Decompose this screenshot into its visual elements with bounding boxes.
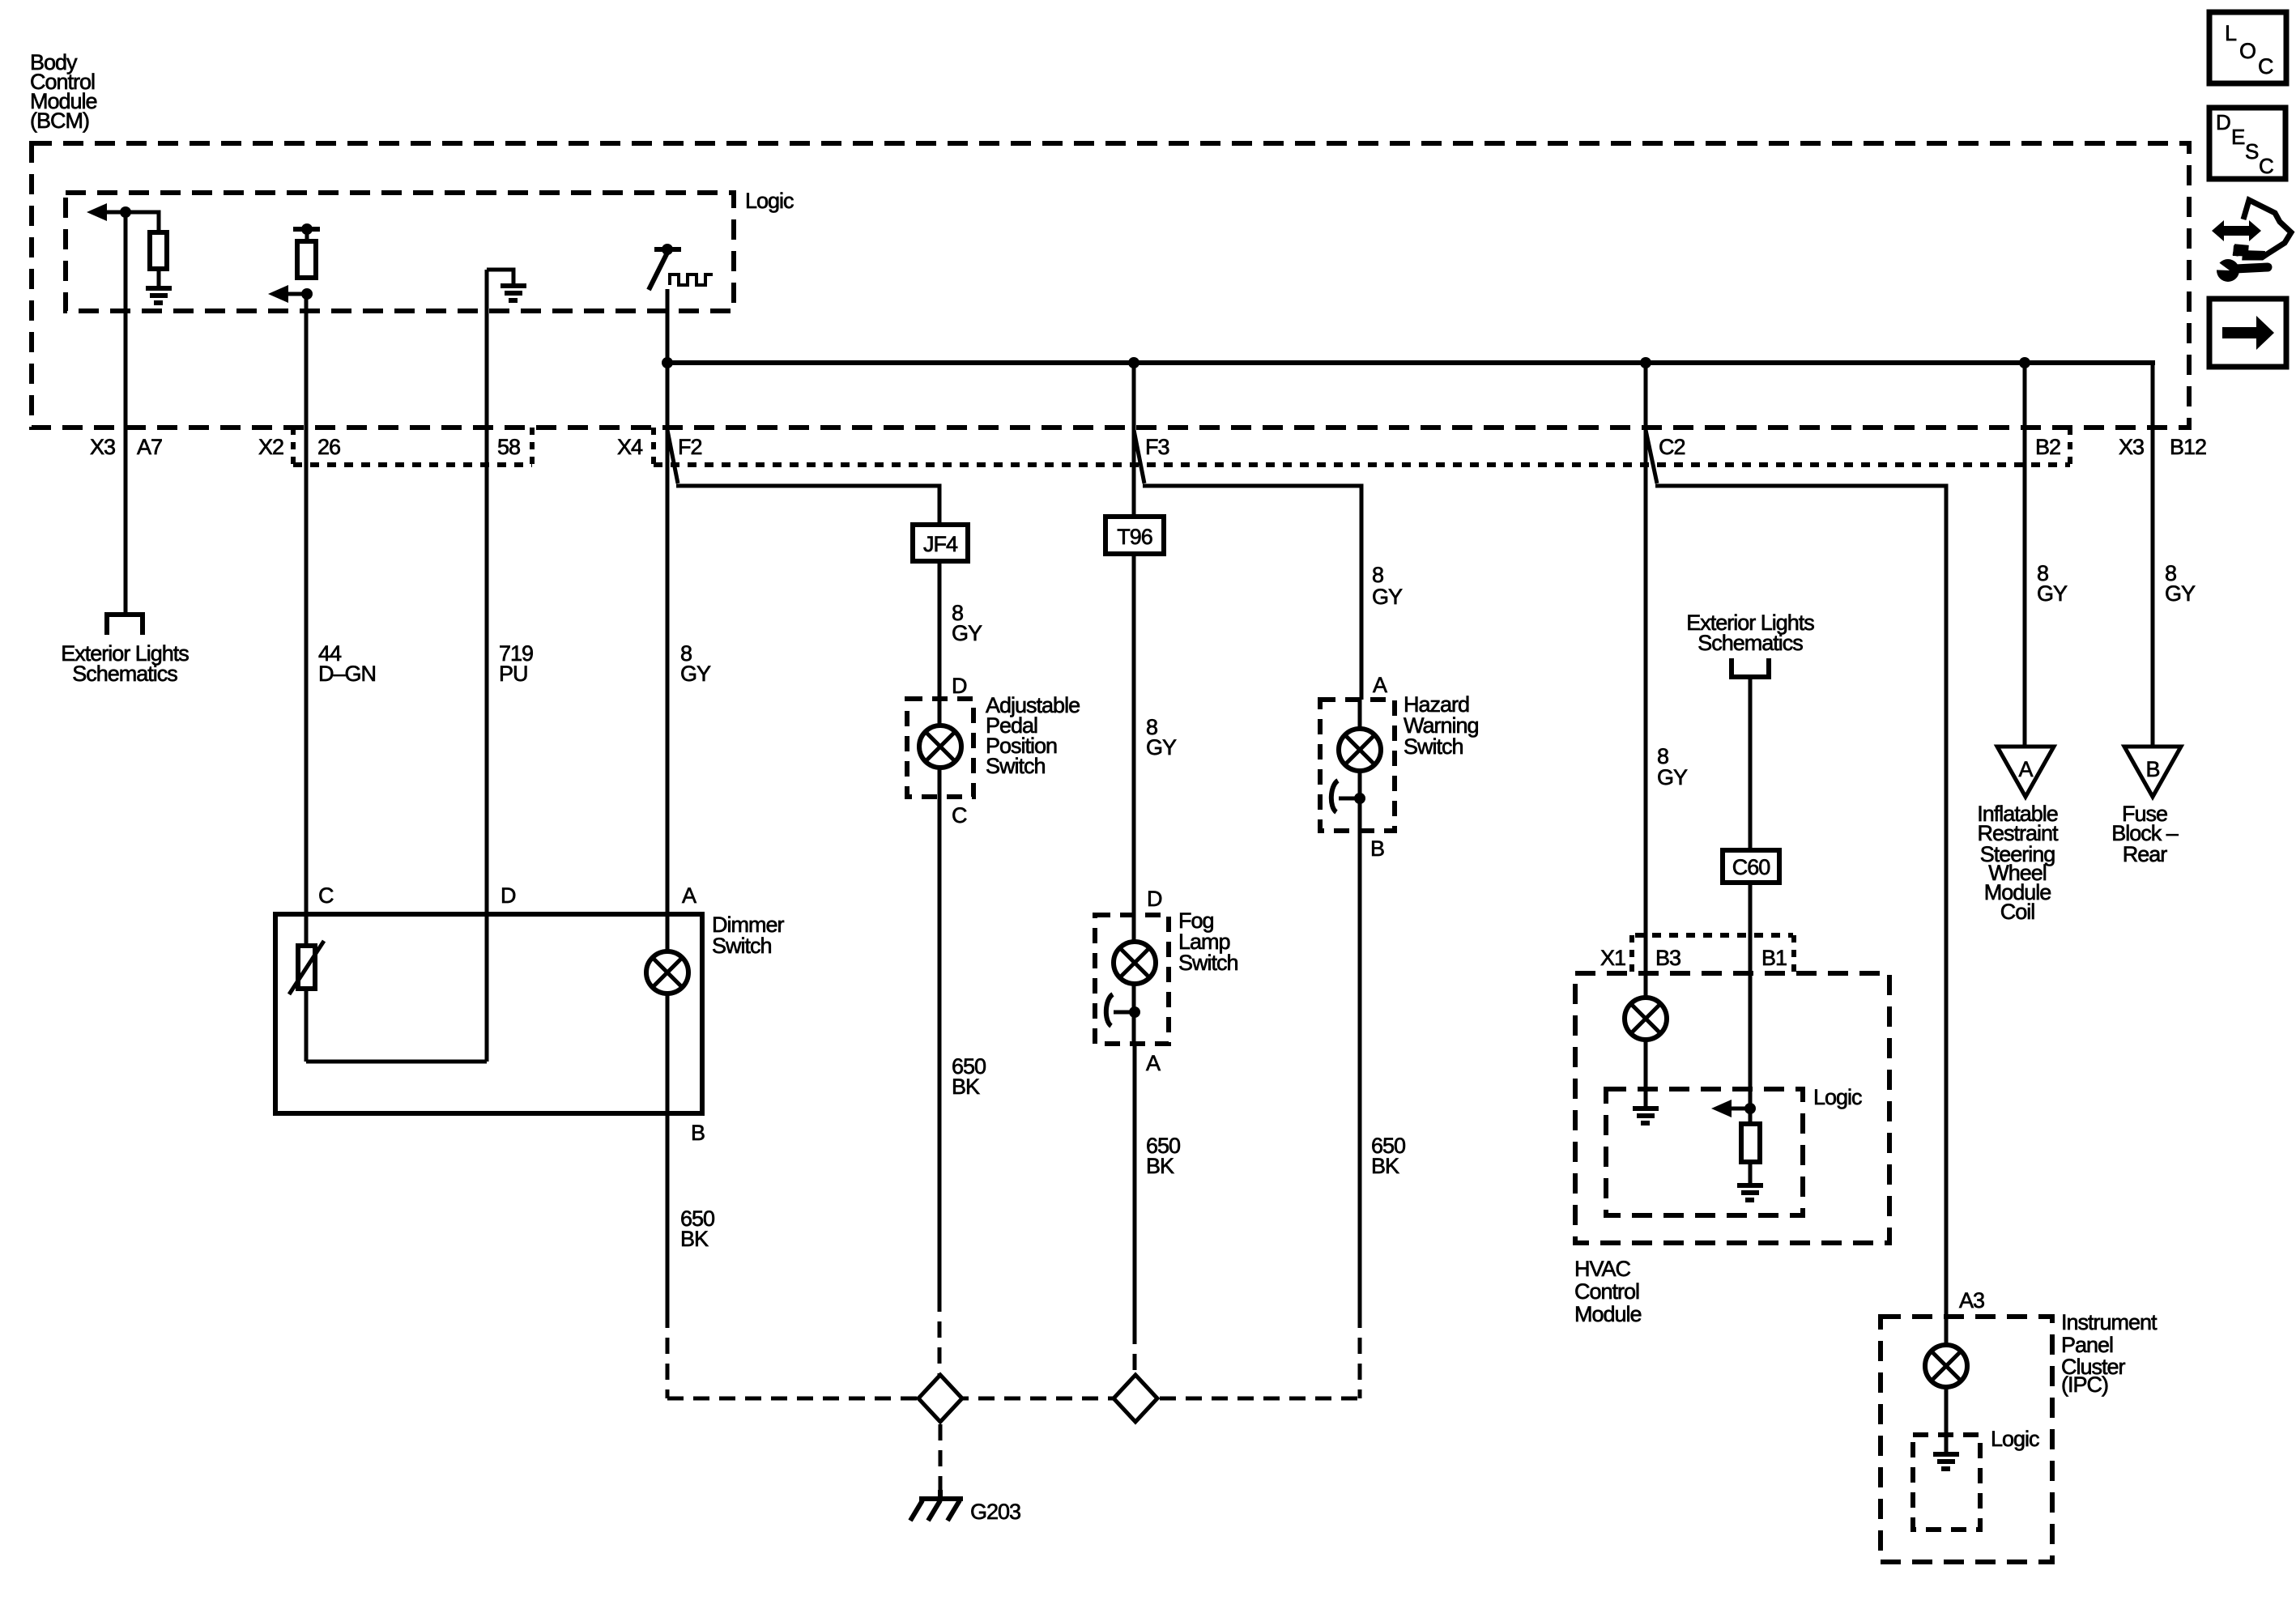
IPC logic dashed box bbox=[1913, 1435, 1980, 1530]
svg-text:D–GN: D–GN bbox=[318, 662, 376, 686]
label Fog Lamp Switch bbox=[1178, 908, 1238, 975]
svg-text:T96: T96 bbox=[1117, 525, 1152, 549]
BCM output driver arrow (X3-A7) bbox=[104, 211, 126, 215]
svg-text:BK: BK bbox=[952, 1074, 980, 1099]
node A7 junction dot bbox=[120, 206, 131, 218]
svg-text:(IPC): (IPC) bbox=[2061, 1372, 2108, 1397]
svg-text:BK: BK bbox=[1146, 1154, 1174, 1178]
wire F2 dashed tail to ground bus bbox=[666, 1312, 670, 1398]
icon LOC box bbox=[2209, 12, 2286, 83]
label Inflatable Restraint Steering Wheel Module Coil bbox=[1977, 802, 2059, 924]
wire A7 (BCM X3-A7 to Exterior Lights Schematics) bbox=[124, 212, 128, 612]
BCM input sense arrow (X2-26) bbox=[288, 292, 307, 296]
svg-text:Module: Module bbox=[1574, 1302, 1642, 1326]
fog switch hook contact bbox=[1114, 1011, 1135, 1015]
Dimmer Switch internal link C to D bbox=[306, 1060, 487, 1064]
label Body Control Module (BCM) bbox=[30, 50, 97, 133]
node 26 junction dot bbox=[301, 288, 313, 300]
wire Hazard Warning Switch column bbox=[1358, 700, 1362, 1312]
Adjustable Pedal Position Switch dashed box bbox=[907, 699, 973, 797]
svg-text:Rear: Rear bbox=[2123, 842, 2168, 866]
svg-text:Logic: Logic bbox=[1991, 1427, 2039, 1451]
wire Fog dashed tail to splice diamond bbox=[1133, 1328, 1137, 1377]
svg-text:Schematics: Schematics bbox=[72, 662, 177, 686]
label 650 BK (Dimmer column) bbox=[680, 1206, 714, 1251]
connector band X2 dotted bottom line bbox=[293, 462, 532, 467]
svg-text:Switch: Switch bbox=[712, 934, 772, 958]
svg-text:Switch: Switch bbox=[986, 754, 1046, 778]
svg-text:X4: X4 bbox=[617, 435, 643, 459]
node F2 switch junction dot bbox=[662, 244, 673, 255]
connector bracket from Exterior Lights Schematics (HVAC column) bbox=[1732, 658, 1769, 677]
svg-text:D: D bbox=[2216, 110, 2231, 134]
icon wrench bbox=[2208, 257, 2268, 282]
ground (HVAC B3) bbox=[1633, 1108, 1659, 1123]
lamp (Dimmer Switch backlight) bbox=[646, 951, 688, 994]
BCM module dashed box bbox=[32, 143, 2189, 428]
svg-text:GY: GY bbox=[1657, 765, 1688, 789]
svg-text:B2: B2 bbox=[2035, 435, 2060, 459]
resistor R2 top bar (X2-26 input) bbox=[293, 227, 320, 232]
resistor R3 (HVAC logic) bbox=[1749, 1108, 1753, 1126]
svg-text:C2: C2 bbox=[1659, 435, 1685, 459]
svg-text:GY: GY bbox=[1146, 735, 1177, 760]
label HVAC Control Module bbox=[1574, 1257, 1642, 1326]
svg-text:8: 8 bbox=[1372, 563, 1383, 587]
off-page triangle B (Fuse Block - Rear) bbox=[2124, 747, 2181, 797]
label Exterior Lights Schematics (HVAC column) bbox=[1686, 611, 1814, 655]
svg-text:S: S bbox=[2245, 139, 2259, 164]
svg-text:Logic: Logic bbox=[745, 189, 794, 213]
svg-text:JF4: JF4 bbox=[923, 532, 958, 556]
svg-text:BK: BK bbox=[1371, 1154, 1399, 1178]
icon arrow box bbox=[2209, 299, 2286, 367]
label 650 BK (Fog column) bbox=[1146, 1134, 1180, 1178]
icon DESC box bbox=[2209, 108, 2285, 179]
svg-text:GY: GY bbox=[1372, 585, 1403, 609]
wire branch F3 to Hazard Warning Switch bbox=[1143, 486, 1361, 700]
svg-text:A7: A7 bbox=[137, 435, 162, 459]
lamp (HVAC B3 backlight) bbox=[1625, 998, 1667, 1040]
wire C2 kink at connector bbox=[1646, 430, 1657, 483]
off-page triangle A (Inflatable Restraint) bbox=[1997, 747, 2054, 797]
label 44 D-GN bbox=[318, 641, 376, 686]
wire B1 (Exterior Lights Schematics via C60 into HVAC logic) bbox=[1749, 679, 1753, 1108]
BCM logic dashed box bbox=[66, 193, 734, 311]
pulse waveform symbol bbox=[670, 274, 713, 285]
fuse T96 bbox=[1105, 517, 1164, 554]
fuse JF4 bbox=[913, 525, 968, 561]
svg-text:B: B bbox=[2145, 757, 2159, 781]
lamp (IPC backlight) bbox=[1925, 1345, 1967, 1387]
svg-text:E: E bbox=[2231, 125, 2245, 149]
node B1 junction dot bbox=[1744, 1103, 1756, 1114]
svg-text:C: C bbox=[318, 883, 334, 908]
hazard switch hook contact bbox=[1339, 797, 1360, 801]
svg-text:GY: GY bbox=[2165, 581, 2196, 606]
ground G203 (chassis) bbox=[910, 1490, 963, 1521]
ground bus dashed (650 BK common to G203) bbox=[667, 1397, 1360, 1401]
svg-text:58: 58 bbox=[497, 435, 520, 459]
svg-text:A: A bbox=[2018, 757, 2033, 781]
label 8 GY (C2 column) bbox=[1657, 744, 1688, 789]
IPC dashed box bbox=[1881, 1317, 2052, 1562]
wire F3 (bus to T96 / Fog Lamp Switch) bbox=[1132, 363, 1136, 1044]
node C2 bus junction dot bbox=[1640, 357, 1651, 368]
svg-text:L: L bbox=[2225, 21, 2237, 45]
lamp (Hazard Warning Switch) bbox=[1339, 729, 1381, 771]
svg-text:Panel: Panel bbox=[2061, 1333, 2113, 1357]
svg-text:X2: X2 bbox=[258, 435, 283, 459]
wire F2 kink at connector bbox=[667, 430, 678, 483]
connector band X4 left separator bbox=[651, 428, 656, 467]
connector band X2 right separator bbox=[530, 428, 535, 467]
label 8 GY (Hazard column) bbox=[1372, 563, 1403, 609]
switch blade (F2 driver) bbox=[649, 253, 667, 290]
svg-text:PU: PU bbox=[499, 662, 528, 686]
Dimmer Switch box bbox=[275, 914, 702, 1113]
connector bracket to Exterior Lights Schematics (left) bbox=[107, 615, 143, 635]
svg-text:Control: Control bbox=[1574, 1279, 1639, 1304]
svg-text:GY: GY bbox=[680, 662, 711, 686]
label 8 GY (JF4 column) bbox=[952, 601, 982, 645]
svg-text:Switch: Switch bbox=[1178, 951, 1238, 975]
label Adjustable Pedal Position Switch bbox=[986, 693, 1080, 778]
Hazard Warning Switch dashed box bbox=[1320, 700, 1395, 831]
svg-text:Schematics: Schematics bbox=[1698, 631, 1803, 655]
node B2 bus junction dot bbox=[2019, 357, 2030, 368]
HVAC Control Module dashed box bbox=[1575, 973, 1889, 1243]
svg-text:HVAC: HVAC bbox=[1574, 1257, 1631, 1281]
connector band X4 right separator bbox=[2068, 428, 2072, 467]
svg-text:Logic: Logic bbox=[1813, 1085, 1862, 1109]
svg-text:Switch: Switch bbox=[1404, 734, 1463, 759]
splice diamond (APP column) bbox=[918, 1375, 962, 1422]
svg-text:GY: GY bbox=[952, 621, 982, 645]
svg-text:26: 26 bbox=[317, 435, 340, 459]
wire Fog Lamp Switch A down bbox=[1133, 1044, 1137, 1328]
resistor R2 (BCM input) bbox=[305, 229, 309, 243]
svg-text:O: O bbox=[2239, 39, 2256, 63]
svg-text:Instrument: Instrument bbox=[2061, 1310, 2158, 1334]
svg-text:F3: F3 bbox=[1145, 435, 1169, 459]
HVAC logic dashed box bbox=[1606, 1089, 1803, 1215]
svg-text:D: D bbox=[501, 883, 516, 908]
svg-text:G203: G203 bbox=[970, 1500, 1020, 1524]
svg-text:C: C bbox=[2258, 54, 2274, 79]
wire 26 (BCM X2-26 to Dimmer Switch C) bbox=[305, 294, 309, 1062]
wire 58 (BCM 58 to Dimmer Switch D) bbox=[485, 270, 489, 1062]
label 650 BK (APP column) bbox=[952, 1054, 986, 1099]
ground (IPC logic) bbox=[1933, 1454, 1959, 1469]
wire R1 to ground bbox=[157, 269, 161, 286]
bus (BCM backlight feed rail) bbox=[667, 360, 2155, 365]
wire B12 (bus corner down to Fuse Block - Rear) bbox=[2151, 363, 2155, 747]
icon hand with double arrow bbox=[2212, 200, 2291, 257]
svg-text:A3: A3 bbox=[1959, 1288, 1984, 1313]
wire APP dashed tail to splice diamond bbox=[938, 1296, 942, 1377]
ground (BCM logic, R1) bbox=[146, 288, 172, 303]
svg-text:GY: GY bbox=[2037, 581, 2068, 606]
HVAC connector band right separator bbox=[1791, 935, 1796, 973]
connector band X4 dotted bottom line bbox=[654, 462, 2070, 467]
label 8 GY (F2 dimmer column) bbox=[680, 641, 711, 686]
rheostat (Dimmer Switch) bbox=[298, 946, 315, 989]
node F2 bus junction dot bbox=[662, 357, 673, 368]
wire HVAC B3 lamp to ground bbox=[1644, 973, 1648, 1106]
wire C2 (bus down to HVAC B3 lamp) bbox=[1644, 363, 1648, 1106]
BCM switch top bar (X4-F2 driver) bbox=[654, 247, 681, 252]
svg-text:B1: B1 bbox=[1761, 946, 1787, 970]
node hazard switch dot bbox=[1354, 793, 1365, 804]
label 8 GY (B12 column) bbox=[2165, 561, 2196, 606]
node fog switch dot bbox=[1129, 1006, 1140, 1018]
svg-text:X3: X3 bbox=[90, 435, 115, 459]
ground (BCM logic, pin 58) bbox=[501, 286, 526, 300]
label 650 BK (Hazard column) bbox=[1371, 1134, 1405, 1178]
svg-text:B: B bbox=[1370, 836, 1384, 861]
label Dimmer Switch bbox=[712, 913, 784, 958]
svg-text:D: D bbox=[1147, 887, 1162, 911]
label Hazard Warning Switch bbox=[1404, 692, 1479, 759]
svg-text:B12: B12 bbox=[2170, 435, 2206, 459]
label Instrument Panel Cluster (IPC) bbox=[2061, 1310, 2158, 1397]
label 8 GY (B2 column) bbox=[2037, 561, 2068, 606]
svg-text:X1: X1 bbox=[1600, 946, 1625, 970]
svg-text:B: B bbox=[691, 1121, 705, 1145]
svg-text:B3: B3 bbox=[1655, 946, 1680, 970]
svg-text:A: A bbox=[1373, 673, 1387, 697]
wire branch F2 to JF4 bbox=[676, 486, 939, 699]
wire APP column (JF4 to Adjustable Pedal Position Switch to splice) bbox=[938, 699, 942, 1296]
label Fuse Block - Rear bbox=[2111, 802, 2179, 866]
HVAC connector band left separator bbox=[1629, 935, 1634, 973]
wire branch C2 to IPC A3 bbox=[1655, 486, 1946, 1317]
label 8 GY (Fog column) bbox=[1146, 715, 1177, 760]
node F3 bus junction dot bbox=[1128, 357, 1139, 368]
svg-text:X3: X3 bbox=[2119, 435, 2144, 459]
wire B2 (bus to Inflatable Restraint coil) bbox=[2023, 363, 2027, 747]
svg-text:D: D bbox=[952, 674, 967, 698]
splice diamond (Fog column) bbox=[1114, 1375, 1157, 1422]
wire IPC lamp to logic ground bbox=[1945, 1317, 1949, 1454]
svg-text:Coil: Coil bbox=[2000, 900, 2035, 924]
connector band X2 left separator bbox=[291, 428, 296, 467]
wire A7 resistor branch bbox=[126, 212, 159, 235]
wire Hazard dashed tail to ground bus bbox=[1358, 1312, 1362, 1398]
wire F2 (BCM X4-F2 switch output, down to Dimmer Switch A/B) bbox=[666, 289, 670, 1312]
label 719 PU bbox=[499, 641, 533, 686]
svg-text:A: A bbox=[682, 883, 696, 908]
wire F3 kink at connector bbox=[1134, 430, 1144, 483]
lamp (Fog Lamp Switch) bbox=[1114, 942, 1156, 984]
svg-text:F2: F2 bbox=[678, 435, 702, 459]
dashed stub from splice to G203 bbox=[939, 1398, 943, 1495]
svg-text:A: A bbox=[1146, 1051, 1161, 1075]
HVAC connector band dotted top line bbox=[1635, 933, 1793, 938]
svg-text:BK: BK bbox=[680, 1227, 709, 1251]
BCM ground hook (58) bbox=[487, 270, 513, 284]
resistor R1 (BCM pull-up) bbox=[150, 232, 167, 269]
svg-text:C: C bbox=[2259, 154, 2274, 178]
ground (HVAC logic R3) bbox=[1737, 1185, 1763, 1200]
svg-text:C: C bbox=[952, 803, 967, 828]
lamp (Adjustable Pedal Position Switch) bbox=[919, 726, 961, 768]
svg-text:(BCM): (BCM) bbox=[30, 109, 89, 133]
node R2 top junction dot bbox=[301, 223, 313, 235]
HVAC logic input arrow (B1) bbox=[1731, 1107, 1750, 1111]
label Exterior Lights Schematics (left) bbox=[61, 641, 189, 686]
Fog Lamp Switch dashed box bbox=[1095, 915, 1169, 1044]
svg-text:C60: C60 bbox=[1732, 855, 1770, 879]
connector C60 bbox=[1723, 850, 1779, 883]
